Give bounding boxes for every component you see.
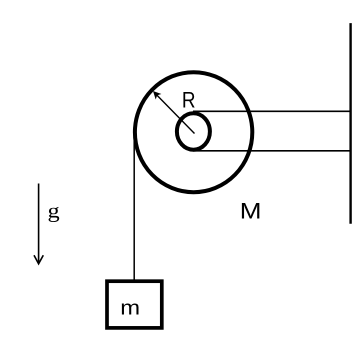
svg-text:M: M (240, 199, 262, 224)
svg-text:m: m (120, 296, 140, 319)
svg-text:R: R (182, 88, 196, 113)
svg-text:g: g (48, 199, 60, 222)
